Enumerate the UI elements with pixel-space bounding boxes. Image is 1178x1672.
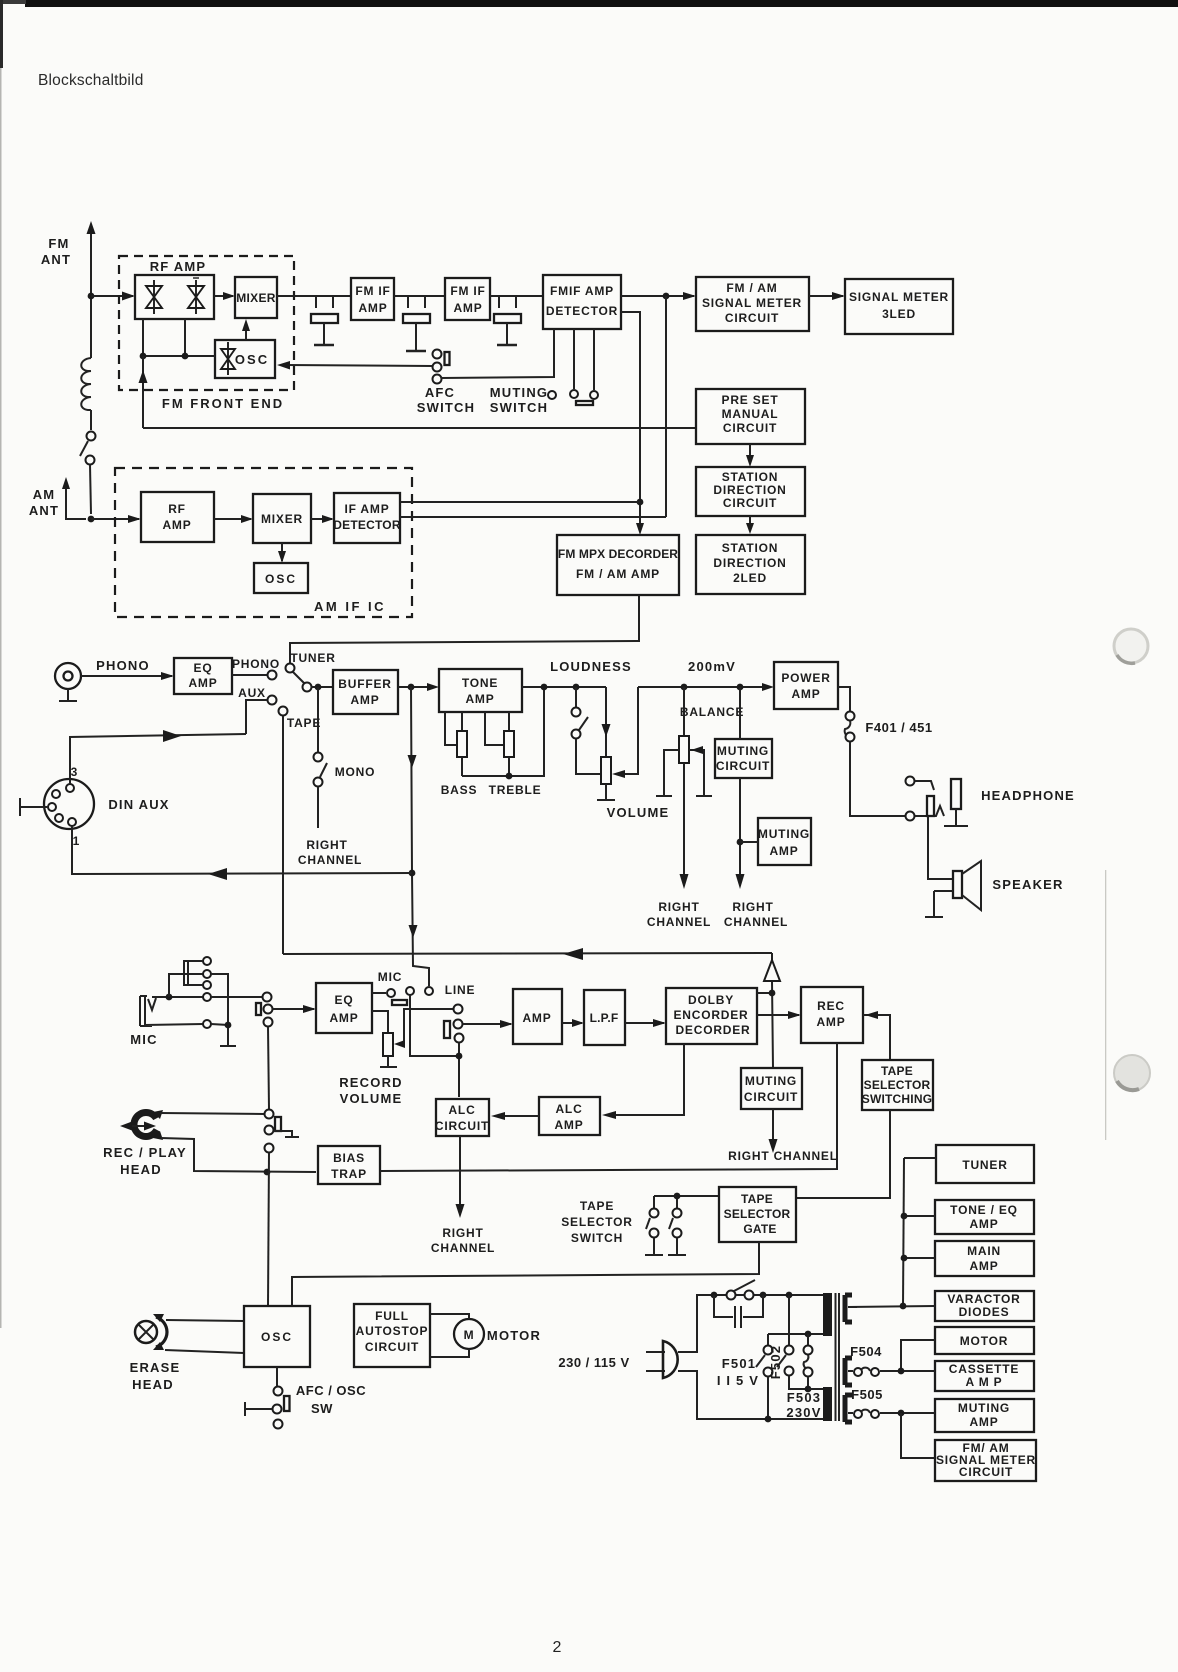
low pass filter box L.P.F: [584, 990, 625, 1045]
phono jack J1: [55, 663, 81, 689]
svg-text:RF: RF: [168, 502, 186, 516]
wire detector node down to AM join: [665, 296, 667, 517]
svg-text:IF AMP: IF AMP: [344, 502, 389, 516]
svg-text:230V: 230V: [786, 1405, 821, 1420]
FM/AM signal meter circuit box: [696, 277, 809, 331]
wire pole to buffer amp: [311, 686, 333, 688]
svg-text:AFC: AFC: [425, 385, 455, 400]
svg-text:RIGHT: RIGHT: [732, 900, 773, 914]
node tone output junction: [541, 684, 548, 691]
wire mic contact 2 to ground bus: [211, 974, 228, 1025]
line out switch: [454, 1005, 463, 1014]
wire mic tip to upper contact: [169, 974, 203, 997]
svg-text:STATION: STATION: [722, 470, 778, 484]
AM oscillator box OSC: [254, 563, 308, 593]
wire balance down right channel: [683, 763, 685, 875]
record amp box AMP: [513, 989, 562, 1044]
station direction circuit box: [696, 467, 805, 516]
svg-text:LINE: LINE: [445, 983, 476, 997]
tape selector gate box: [719, 1187, 796, 1242]
fuse column C F502: [807, 1334, 809, 1345]
wire dolby to rec amp: [757, 1014, 799, 1016]
wire AFC to FM OSC: [286, 365, 432, 366]
wire antenna to RF AMP: [91, 295, 133, 297]
svg-text:EQ: EQ: [335, 993, 354, 1007]
svg-text:TAPE: TAPE: [881, 1064, 913, 1078]
DIN AUX connector: [44, 779, 94, 829]
node diode leg B: [182, 353, 189, 360]
balance right leg wiper: [689, 750, 712, 796]
node buffer input junction: [315, 684, 322, 691]
wire rec switch to EQ AMP: [272, 1008, 314, 1010]
wire mic jack tip: [152, 996, 203, 998]
punch hole lower: [1114, 1055, 1150, 1091]
headphone jack body: [951, 779, 961, 809]
RF amp box: [135, 275, 214, 319]
AM antenna arrow: [66, 487, 86, 519]
volume wiper: [616, 687, 638, 774]
wire buffer amp to tone amp: [398, 686, 436, 688]
node snubber left: [711, 1292, 718, 1299]
wire LPF to DOLBY: [625, 1022, 664, 1024]
svg-text:MIXER: MIXER: [236, 291, 276, 305]
wire head lower to bias line: [161, 1138, 316, 1172]
ALC circuit box: [436, 1099, 489, 1136]
selector contact AUX: [268, 696, 277, 705]
svg-text:REC / PLAY: REC / PLAY: [103, 1145, 187, 1160]
svg-text:FM MPX DECORDER: FM MPX DECORDER: [558, 547, 678, 561]
FM FRONT END dashed enclosure: [119, 256, 294, 390]
svg-text:CIRCUIT: CIRCUIT: [744, 1090, 798, 1104]
voltage selector column B: [788, 1295, 790, 1345]
wire rec amp from tape selector switching: [863, 1015, 890, 1060]
node AM input junction: [88, 516, 95, 523]
record source switch: [263, 993, 272, 1002]
mic/line pole: [406, 987, 414, 995]
fuse F505: [848, 1412, 853, 1414]
wire power amp to fuse: [838, 687, 850, 712]
wire erase head to OSC: [165, 1320, 244, 1353]
wire bias trap to rec amp: [380, 1043, 837, 1171]
svg-text:MAIN: MAIN: [967, 1244, 1001, 1258]
mains plug: [646, 1352, 665, 1371]
wire ALC amp to ALC circuit: [495, 1115, 539, 1117]
svg-text:F503: F503: [787, 1390, 821, 1405]
motor M1: [454, 1319, 484, 1349]
svg-text:F504: F504: [850, 1344, 882, 1359]
node balance tap: [681, 684, 688, 691]
AM RF amp box: [141, 492, 214, 542]
svg-text:MOTOR: MOTOR: [487, 1328, 541, 1343]
svg-text:EQ: EQ: [194, 661, 213, 675]
node snubber right: [760, 1292, 767, 1299]
wire volume to power amp: [638, 686, 771, 688]
svg-text:AMP: AMP: [969, 1259, 998, 1273]
FM antenna wire with up arrow: [90, 232, 92, 358]
wire tone pots common return: [462, 687, 544, 776]
wire mic sleeve to ground: [211, 1024, 236, 1046]
svg-text:F502: F502: [768, 1345, 783, 1379]
wire dolby bottom to ALC AMP: [606, 1044, 684, 1115]
wire autostop to motor: [430, 1314, 469, 1357]
tape selector switching box: [862, 1060, 933, 1110]
FM IF amp box 1: [351, 278, 394, 320]
svg-text:MIXER: MIXER: [261, 512, 303, 526]
svg-text:F501: F501: [722, 1356, 756, 1371]
wire ALC circuit right channel: [459, 1136, 461, 1205]
svg-text:SELECTOR: SELECTOR: [724, 1207, 791, 1221]
svg-text:DIRECTION: DIRECTION: [713, 556, 786, 570]
svg-text:VARACTOR: VARACTOR: [947, 1292, 1020, 1306]
wire gate down to OSC: [292, 1242, 759, 1306]
node ALC junction: [456, 1053, 463, 1060]
svg-text:MIC: MIC: [378, 970, 402, 984]
wire selector contacts to gate: [654, 1195, 719, 1197]
wire transformer to varactor box: [848, 1306, 935, 1307]
svg-text:TREBLE: TREBLE: [489, 783, 542, 797]
erase head: [135, 1321, 157, 1343]
mic jack switch contacts: [203, 957, 211, 965]
svg-text:AMP: AMP: [969, 1415, 998, 1429]
svg-text:MANUAL: MANUAL: [722, 407, 779, 421]
svg-text:1: 1: [73, 834, 80, 848]
wire meter circuit to 3LED: [809, 295, 843, 297]
svg-text:FMIF AMP: FMIF AMP: [550, 284, 614, 298]
wire mic tip to rec selector: [211, 996, 262, 998]
svg-text:RIGHT: RIGHT: [658, 900, 699, 914]
svg-text:AMP: AMP: [453, 301, 482, 315]
muting switch contacts: [548, 391, 556, 399]
svg-text:2LED: 2LED: [733, 571, 767, 585]
ceramic filter CF1: [311, 296, 338, 345]
svg-text:3: 3: [71, 765, 78, 779]
node tap link: [805, 1331, 812, 1338]
phono EQ amp box: [174, 658, 232, 694]
svg-text:230 / 115 V: 230 / 115 V: [558, 1355, 629, 1370]
wire dolby node riser with hollow arrow: [772, 953, 773, 1068]
svg-text:AMP: AMP: [522, 1011, 551, 1025]
AM IF IC dashed enclosure: [115, 468, 412, 617]
varactor diode D2: [188, 278, 204, 314]
svg-text:F505: F505: [851, 1387, 883, 1402]
svg-text:STATION: STATION: [722, 541, 778, 555]
wire secondary 1 out: [848, 1306, 857, 1308]
svg-text:SELECTOR: SELECTOR: [864, 1078, 931, 1092]
bias oscillator box OSC: [244, 1306, 310, 1367]
wire switching box down to gate line: [796, 1110, 890, 1198]
tuner box (right column): [936, 1145, 1034, 1183]
svg-text:SIGNAL METER: SIGNAL METER: [702, 296, 802, 310]
wire MIXER output to IF strip: [277, 295, 351, 297]
svg-text:DIN AUX: DIN AUX: [108, 797, 169, 812]
wire bus to main amp: [904, 1257, 935, 1259]
svg-text:TONE / EQ: TONE / EQ: [950, 1203, 1018, 1217]
svg-text:DECORDER: DECORDER: [675, 1023, 750, 1037]
tape selector switch contacts: [654, 1196, 677, 1208]
node buffer output junction: [408, 684, 415, 691]
AM IF amp detector box: [334, 493, 400, 543]
play/record switch: [265, 1110, 274, 1119]
wire IF2 to CF3: [490, 295, 543, 297]
svg-text:MOTOR: MOTOR: [960, 1334, 1008, 1348]
wire AM ant to RF AMP: [91, 518, 139, 520]
svg-text:RIGHT: RIGHT: [306, 838, 347, 852]
wire primary bottom link: [808, 1388, 823, 1390]
svg-text:TAPE: TAPE: [580, 1199, 614, 1213]
node MPX feed junction: [637, 499, 644, 506]
wire DIN pin1 from tape line: [72, 826, 412, 874]
svg-text:RF AMP: RF AMP: [150, 259, 207, 274]
svg-text:AMP: AMP: [329, 1011, 358, 1025]
wire AM detector output B: [400, 516, 666, 518]
svg-text:MUTING: MUTING: [958, 1401, 1010, 1415]
svg-text:OSC: OSC: [265, 572, 297, 586]
svg-text:MONO: MONO: [335, 765, 376, 779]
punch hole upper: [1114, 629, 1148, 663]
full autostop circuit box: [354, 1304, 430, 1367]
svg-text:CIRCUIT: CIRCUIT: [959, 1465, 1013, 1479]
speaker SP1: [953, 871, 962, 898]
motor box (right column): [935, 1327, 1034, 1354]
svg-text:M: M: [464, 1328, 475, 1342]
wire MPX output down to tuner contact: [290, 595, 639, 663]
wire TAPE contact down: [282, 716, 284, 954]
svg-text:CIRCUIT: CIRCUIT: [365, 1340, 419, 1354]
svg-text:SIGNAL METER: SIGNAL METER: [849, 290, 949, 304]
wire buffer output down to record bus: [411, 687, 429, 986]
ceramic filter CF2: [403, 296, 430, 351]
muting amp box (right column): [935, 1399, 1034, 1432]
record muting circuit box: [741, 1068, 802, 1109]
svg-text:SWITCHING: SWITCHING: [862, 1092, 932, 1106]
svg-text:ANT: ANT: [29, 503, 59, 518]
MIC jack J2: [140, 996, 203, 1026]
node record-out junction: [409, 870, 416, 877]
svg-text:CHANNEL: CHANNEL: [431, 1241, 495, 1255]
svg-text:FM / AM AMP: FM / AM AMP: [576, 567, 660, 581]
wire plug to rails: [678, 1295, 828, 1419]
wire preset bus: [143, 427, 696, 429]
svg-text:FM IF: FM IF: [450, 284, 485, 298]
bias trap box: [318, 1146, 380, 1184]
svg-text:HEAD: HEAD: [120, 1162, 162, 1177]
node mic ground junction: [225, 1022, 232, 1029]
FM/AM band switch S1: [90, 410, 92, 430]
wire AUX contact from DIN: [246, 700, 267, 734]
node bottom rail tap: [765, 1416, 772, 1423]
wire muting circuit right channel: [772, 1109, 774, 1140]
tone amp box: [439, 669, 522, 712]
transformer secondary 3: [845, 1395, 852, 1422]
node bus main amp: [901, 1255, 908, 1262]
wire switch down to OSC: [268, 1153, 269, 1306]
svg-text:ERASE: ERASE: [130, 1360, 181, 1375]
svg-text:LOUDNESS: LOUDNESS: [550, 659, 632, 674]
svg-text:VOLUME: VOLUME: [607, 805, 670, 820]
svg-text:HEADPHONE: HEADPHONE: [981, 788, 1075, 803]
svg-text:SW: SW: [311, 1401, 333, 1416]
wire station direction to 2LED: [749, 516, 751, 531]
wire AMP to LPF: [562, 1022, 582, 1024]
svg-text:ALC: ALC: [555, 1102, 582, 1116]
svg-text:MUTING: MUTING: [490, 385, 548, 400]
transformer secondary 1: [845, 1295, 852, 1322]
fuse F401/451: [846, 712, 855, 721]
svg-text:AM: AM: [33, 487, 56, 502]
svg-text:PRE SET: PRE SET: [722, 393, 779, 407]
volume pot R3: [601, 757, 611, 784]
node dolby output junction: [769, 990, 776, 997]
node diode leg A: [140, 353, 147, 360]
svg-text:AUTOSTOP: AUTOSTOP: [356, 1324, 429, 1338]
muting amp box: [758, 818, 811, 865]
record volume pot R5: [372, 1011, 388, 1033]
MONO switch: [317, 687, 319, 752]
svg-text:MUTING: MUTING: [745, 1074, 797, 1088]
svg-text:3LED: 3LED: [882, 307, 916, 321]
svg-text:SWITCH: SWITCH: [417, 400, 475, 415]
svg-text:FM IF: FM IF: [355, 284, 390, 298]
svg-text:TUNER: TUNER: [290, 651, 335, 665]
bass pot R1: [445, 712, 457, 745]
svg-text:AMP: AMP: [969, 1217, 998, 1231]
svg-text:HEAD: HEAD: [132, 1377, 174, 1392]
wire AFC feedback down to preset bus: [142, 356, 144, 428]
svg-text:TAPE: TAPE: [741, 1192, 773, 1206]
svg-text:BALANCE: BALANCE: [680, 705, 744, 719]
svg-text:DOLBY: DOLBY: [688, 993, 734, 1007]
node tap bottom link: [805, 1386, 812, 1393]
svg-text:AMP: AMP: [554, 1118, 583, 1132]
wire AM RF to MIXER: [214, 518, 251, 520]
wire fuse to headphone jack: [850, 742, 905, 816]
wire muting tap to muting amp: [740, 841, 758, 843]
mic contact bracket: [184, 961, 203, 985]
FM MPX decoder box: [557, 535, 679, 595]
svg-text:CASSETTE: CASSETTE: [949, 1362, 1019, 1376]
svg-text:CHANNEL: CHANNEL: [647, 915, 711, 929]
wire mixer to AM OSC: [281, 543, 283, 561]
headphone jack contacts: [906, 777, 915, 786]
wire AFC lower contact to detector: [441, 329, 554, 378]
svg-text:DIODES: DIODES: [959, 1305, 1010, 1319]
svg-text:Blockschaltbild: Blockschaltbild: [38, 72, 144, 89]
svg-text:AUX: AUX: [238, 686, 266, 700]
node treble return: [506, 773, 513, 780]
wire F504 node to motor box: [901, 1340, 935, 1371]
preset manual circuit box: [696, 389, 805, 444]
selector contact TUNER: [286, 664, 295, 673]
svg-text:DIRECTION: DIRECTION: [713, 483, 786, 497]
wire AM mixer to IF amp: [311, 518, 332, 520]
svg-text:GATE: GATE: [743, 1222, 776, 1236]
svg-text:PHONO: PHONO: [232, 657, 280, 671]
wire F505 node down to meter box: [901, 1413, 935, 1458]
rec EQ output MIC contact: [372, 992, 386, 994]
svg-text:MUTING: MUTING: [717, 744, 769, 758]
wire tape playback return line: [283, 953, 772, 954]
ceramic filter CF3: [494, 296, 521, 345]
svg-text:AMP: AMP: [465, 692, 494, 706]
balance pot R4: [683, 687, 685, 736]
record EQ amp box: [316, 983, 372, 1033]
scan left edge: [0, 0, 3, 68]
muting circuit box: [715, 739, 772, 778]
selector pole with lever: [293, 672, 304, 683]
antenna coil L1: [81, 358, 91, 410]
buffer amp box: [333, 670, 398, 714]
right edge faint line: [1105, 870, 1106, 1140]
svg-text:I I 5 V: I I 5 V: [717, 1373, 759, 1388]
FM IF amp box 2: [445, 278, 490, 320]
svg-text:BIAS: BIAS: [333, 1151, 365, 1165]
scan top edge bar: [25, 0, 1178, 7]
svg-text:SWITCH: SWITCH: [490, 400, 548, 415]
transformer primary bottom: [823, 1387, 832, 1421]
DIN ground tab: [20, 798, 48, 816]
svg-text:VOLUME: VOLUME: [340, 1091, 403, 1106]
wire tone amp output: [522, 686, 606, 688]
svg-text:DETECTOR: DETECTOR: [333, 518, 401, 532]
AM mixer box: [253, 494, 311, 543]
node head line junction: [264, 1169, 271, 1176]
node F505 junction: [898, 1410, 905, 1417]
svg-text:FULL: FULL: [375, 1309, 409, 1323]
wire F505 to muting amp: [880, 1412, 935, 1414]
wire switch to ALC node: [458, 1043, 460, 1097]
varactor diode D3 in OSC: [221, 342, 235, 375]
wire tap top link: [768, 1333, 824, 1335]
wire loudness to volume pot: [605, 687, 607, 757]
node varactor junction: [900, 1303, 907, 1310]
node muting amp tap: [737, 839, 744, 846]
mains switch: [727, 1291, 736, 1300]
svg-text:TAPE: TAPE: [287, 716, 321, 730]
svg-text:CIRCUIT: CIRCUIT: [723, 496, 777, 510]
wire bus to tuner: [904, 1157, 936, 1159]
station direction 2LED box: [696, 535, 805, 594]
AFC/OSC switch: [276, 1367, 278, 1386]
wire mic/line pole down: [410, 995, 459, 1056]
FM local oscillator box OSC: [215, 340, 275, 378]
svg-text:CHANNEL: CHANNEL: [724, 915, 788, 929]
svg-text:FM / AM: FM / AM: [726, 281, 777, 295]
main amp box: [935, 1241, 1034, 1276]
svg-text:SWITCH: SWITCH: [571, 1231, 623, 1245]
wire rec switch down to head switch: [268, 1027, 269, 1109]
svg-text:2: 2: [553, 1639, 562, 1656]
wire detector lower stub to MPX line: [621, 312, 640, 532]
svg-text:RIGHT: RIGHT: [442, 1226, 483, 1240]
svg-text:AMP: AMP: [816, 1015, 845, 1029]
mixer box MIXER: [235, 277, 277, 318]
svg-text:AMP: AMP: [791, 687, 820, 701]
svg-text:ANT: ANT: [41, 252, 71, 267]
svg-text:RIGHT CHANNEL: RIGHT CHANNEL: [728, 1149, 838, 1163]
svg-text:PHONO: PHONO: [96, 658, 150, 673]
wire preset to station direction circuit: [749, 444, 751, 464]
svg-text:MIC: MIC: [130, 1032, 157, 1047]
svg-text:F401 / 451: F401 / 451: [865, 720, 932, 735]
svg-text:OSC: OSC: [235, 352, 269, 367]
svg-text:TRAP: TRAP: [331, 1167, 367, 1181]
node tap feed: [786, 1292, 793, 1299]
voltage selector column A: [767, 1334, 769, 1345]
node detector output: [663, 293, 670, 300]
wire muting circuit down: [739, 778, 741, 875]
treble pot R2: [485, 712, 504, 745]
svg-text:FM: FM: [48, 236, 69, 251]
